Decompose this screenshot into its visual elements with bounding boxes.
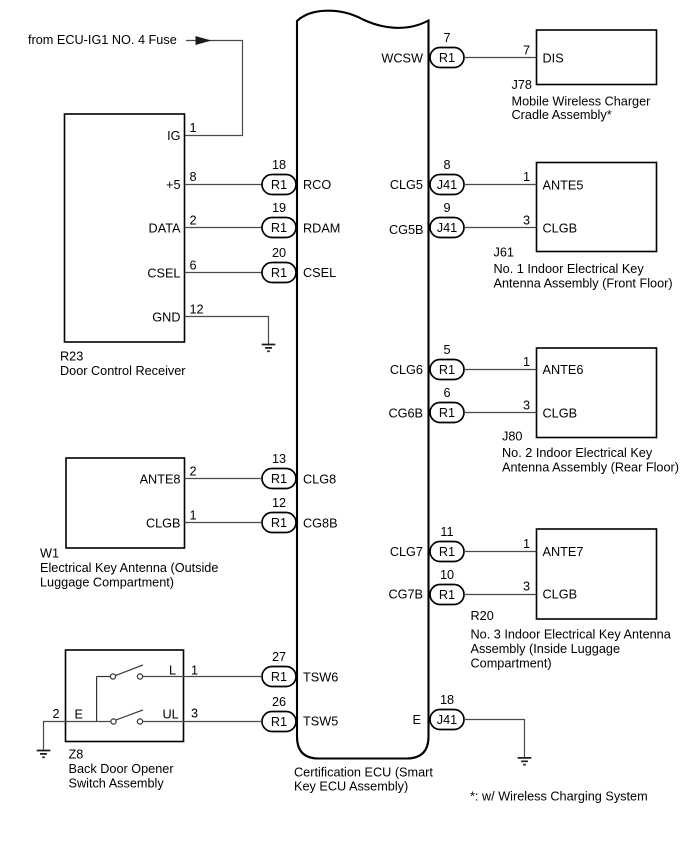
- svg-text:R1: R1: [271, 221, 287, 235]
- wire R23 +5 to R1 pin 18: [185, 184, 263, 186]
- connector oval J41 pin 18 (E): [430, 693, 464, 729]
- svg-text:Compartment): Compartment): [471, 656, 552, 670]
- svg-text:R1: R1: [271, 472, 287, 486]
- component W1 Electrical Key Antenna (Outside Luggage Compartment): [40, 458, 218, 589]
- svg-text:J41: J41: [437, 713, 457, 727]
- svg-text:10: 10: [440, 568, 454, 582]
- wire ECU E to ground: [464, 720, 525, 758]
- svg-text:CG6B: CG6B: [388, 406, 423, 420]
- svg-text:E: E: [413, 713, 421, 727]
- svg-text:CLG5: CLG5: [390, 178, 423, 192]
- svg-text:5: 5: [443, 343, 450, 357]
- connector oval R1 pin 19 (RDAM): [262, 201, 296, 237]
- connector oval J41 pin 9 (CG5B): [430, 201, 464, 237]
- connector oval R1 pin 11 (CLG7): [430, 525, 464, 561]
- svg-text:1: 1: [523, 355, 530, 369]
- svg-text:Assembly (Inside Luggage: Assembly (Inside Luggage: [471, 642, 621, 656]
- svg-text:9: 9: [443, 201, 450, 215]
- svg-text:6: 6: [443, 386, 450, 400]
- svg-text:13: 13: [272, 452, 286, 466]
- svg-text:3: 3: [523, 213, 530, 227]
- svg-text:L: L: [169, 664, 176, 678]
- svg-text:R20: R20: [471, 609, 494, 623]
- svg-text:Antenna Assembly (Rear Floor): Antenna Assembly (Rear Floor): [502, 461, 679, 475]
- wire Z8 L to R1 pin 27: [143, 676, 262, 678]
- svg-text:ANTE6: ANTE6: [543, 363, 584, 377]
- svg-text:1: 1: [191, 663, 198, 677]
- svg-text:DATA: DATA: [149, 221, 181, 235]
- svg-text:R1: R1: [439, 406, 455, 420]
- svg-text:2: 2: [190, 213, 197, 227]
- component R23 Door Control Receiver: [60, 114, 186, 378]
- wire CG7B to CLGB (R20): [464, 594, 537, 596]
- svg-text:+5: +5: [166, 178, 180, 192]
- svg-text:CLGB: CLGB: [543, 588, 578, 602]
- svg-text:Door Control Receiver: Door Control Receiver: [60, 364, 186, 378]
- switch contacts (L): [97, 665, 143, 679]
- svg-text:CSEL: CSEL: [303, 266, 336, 280]
- svg-text:18: 18: [440, 693, 454, 707]
- svg-text:RCO: RCO: [303, 178, 331, 192]
- svg-text:CLGB: CLGB: [146, 517, 181, 531]
- wire CG5B to CLGB (J61): [464, 227, 537, 229]
- svg-text:Back Door Opener: Back Door Opener: [69, 762, 175, 776]
- svg-text:R1: R1: [271, 266, 287, 280]
- svg-text:R1: R1: [439, 545, 455, 559]
- svg-text:6: 6: [190, 258, 197, 272]
- svg-text:Certification ECU (Smart: Certification ECU (Smart: [294, 765, 433, 779]
- svg-text:R1: R1: [439, 363, 455, 377]
- ECU terminal names (right side): [381, 51, 423, 727]
- ECU terminal names (left side): [303, 178, 340, 729]
- connector oval R1 pin 13 (CLG8): [262, 452, 296, 488]
- Z8 pin numbers 1,3,2: [52, 663, 198, 721]
- svg-text:CG8B: CG8B: [303, 517, 338, 531]
- svg-text:ANTE7: ANTE7: [543, 545, 584, 559]
- svg-text:*: w/ Wireless Charging System: *: w/ Wireless Charging System: [470, 790, 648, 804]
- J61 pin numbers 1,3: [523, 170, 530, 227]
- svg-text:Z8: Z8: [69, 747, 84, 761]
- svg-text:IG: IG: [167, 129, 180, 143]
- svg-text:3: 3: [523, 580, 530, 594]
- svg-text:CG7B: CG7B: [388, 588, 423, 602]
- svg-text:Luggage Compartment): Luggage Compartment): [40, 575, 174, 589]
- svg-text:R1: R1: [271, 516, 287, 530]
- svg-text:ANTE8: ANTE8: [140, 473, 181, 487]
- connector oval R1 pin 26 (TSW5): [262, 695, 296, 731]
- wire: switch common link: [96, 677, 98, 722]
- component J61 No.1 Indoor Electrical Key Antenna Assembly (Front Floor): [494, 163, 673, 291]
- svg-text:Antenna Assembly (Front Floor): Antenna Assembly (Front Floor): [494, 277, 673, 291]
- wire CLG7 to ANTE7: [464, 551, 537, 553]
- connector oval R1 pin 18 (RCO): [262, 158, 296, 194]
- svg-text:E: E: [75, 708, 83, 722]
- connector oval R1 pin 12 (CG8B): [262, 496, 296, 532]
- svg-text:R1: R1: [271, 178, 287, 192]
- svg-text:7: 7: [523, 43, 530, 57]
- R23 pin numbers 1,8,2,6,12: [190, 121, 204, 317]
- wire: from ECU-IG1 NO.4 fuse feed with arrow down to R23 pin IG: [28, 33, 243, 136]
- J80 pin numbers 1,3: [523, 355, 530, 412]
- svg-text:J61: J61: [494, 246, 514, 260]
- svg-text:GND: GND: [152, 311, 180, 325]
- svg-text:J78: J78: [512, 78, 532, 92]
- svg-text:11: 11: [440, 525, 453, 539]
- svg-text:TSW5: TSW5: [303, 715, 338, 729]
- svg-text:CLGB: CLGB: [543, 221, 578, 235]
- wire Z8 UL to R1 pin 26: [143, 721, 262, 723]
- svg-text:R1: R1: [439, 51, 455, 65]
- svg-text:CLG6: CLG6: [390, 363, 423, 377]
- wire R23 DATA to R1 pin 19: [185, 227, 263, 229]
- svg-text:R1: R1: [439, 588, 455, 602]
- wire CLG6 to ANTE6: [464, 369, 537, 371]
- wire R23 CSEL to R1 pin 20: [185, 272, 263, 274]
- connector oval R1 pin 5 (CLG6): [430, 343, 464, 379]
- wire W1 ANTE8 to R1 pin 13: [185, 478, 263, 480]
- wire R23 GND to ground: [185, 317, 269, 344]
- svg-text:Mobile Wireless Charger: Mobile Wireless Charger: [512, 95, 652, 109]
- svg-text:No. 2 Indoor Electrical Key: No. 2 Indoor Electrical Key: [502, 446, 653, 460]
- ground (ECU E): [518, 758, 532, 765]
- svg-text:19: 19: [272, 201, 286, 215]
- svg-text:CG5B: CG5B: [389, 223, 424, 237]
- wire CLG5 to ANTE5: [464, 184, 537, 186]
- component J80 No.2 Indoor Electrical Key Antenna Assembly (Rear Floor): [502, 348, 679, 475]
- svg-text:No. 1 Indoor Electrical Key: No. 1 Indoor Electrical Key: [494, 262, 645, 276]
- svg-text:2: 2: [190, 465, 197, 479]
- svg-text:1: 1: [523, 537, 530, 551]
- W1 pin numbers 2,1: [190, 465, 197, 523]
- svg-text:26: 26: [272, 695, 286, 709]
- svg-text:R1: R1: [271, 670, 287, 684]
- svg-text:No. 3 Indoor Electrical Key An: No. 3 Indoor Electrical Key Antenna: [471, 628, 672, 642]
- svg-text:J80: J80: [502, 430, 522, 444]
- svg-text:Cradle Assembly*: Cradle Assembly*: [512, 108, 612, 122]
- svg-text:2: 2: [52, 707, 59, 721]
- connector oval R1 pin 6 (CG6B): [430, 386, 464, 422]
- svg-text:CLG8: CLG8: [303, 473, 336, 487]
- svg-text:Electrical Key Antenna (Outsid: Electrical Key Antenna (Outside: [40, 561, 218, 575]
- svg-text:CLG7: CLG7: [390, 545, 423, 559]
- wire Z8 E to ground: [44, 722, 111, 750]
- svg-text:WCSW: WCSW: [381, 51, 423, 65]
- svg-text:18: 18: [272, 158, 286, 172]
- connector oval J41 pin 8 (CLG5): [430, 158, 464, 194]
- svg-text:J41: J41: [437, 178, 457, 192]
- connector oval R1 pin 20 (CSEL): [262, 246, 296, 282]
- svg-text:CSEL: CSEL: [147, 266, 180, 280]
- wire WCSW to DIS: [464, 57, 537, 59]
- R20 pin numbers 1,3: [523, 537, 530, 594]
- svg-text:1: 1: [190, 509, 197, 523]
- svg-text:Key ECU Assembly): Key ECU Assembly): [294, 780, 408, 794]
- svg-text:from ECU-IG1 NO. 4 Fuse: from ECU-IG1 NO. 4 Fuse: [28, 33, 177, 47]
- connector oval R1 pin 27 (TSW6): [262, 650, 296, 686]
- svg-text:W1: W1: [40, 546, 59, 560]
- svg-text:1: 1: [523, 170, 530, 184]
- component J78 Mobile Wireless Charger Cradle Assembly (DIS): [512, 30, 657, 122]
- component R20 No.3 Indoor Electrical Key Antenna Assembly (Inside Luggage Compartment): [471, 529, 672, 670]
- svg-text:J41: J41: [437, 221, 457, 235]
- svg-text:R23: R23: [60, 350, 83, 364]
- ground (R23 GND): [262, 345, 276, 352]
- wire W1 CLGB to R1 pin 12: [185, 522, 263, 524]
- svg-text:8: 8: [443, 158, 450, 172]
- ground (Z8 E): [37, 751, 51, 758]
- svg-text:ANTE5: ANTE5: [543, 178, 584, 192]
- svg-text:CLGB: CLGB: [543, 406, 578, 420]
- ECU body: Certification ECU (Smart Key ECU Assembly): [294, 11, 433, 794]
- svg-text:DIS: DIS: [543, 51, 564, 65]
- component Z8 Back Door Opener Switch Assembly: [66, 650, 184, 790]
- svg-text:1: 1: [190, 121, 197, 135]
- connector oval R1 pin 7 (WCSW): [430, 31, 464, 67]
- svg-text:Switch Assembly: Switch Assembly: [69, 776, 165, 790]
- svg-text:27: 27: [272, 650, 286, 664]
- svg-text:12: 12: [272, 496, 286, 510]
- svg-text:12: 12: [190, 303, 204, 317]
- svg-text:3: 3: [523, 398, 530, 412]
- svg-text:RDAM: RDAM: [303, 221, 340, 235]
- svg-text:R1: R1: [271, 715, 287, 729]
- svg-text:3: 3: [191, 707, 198, 721]
- svg-text:20: 20: [272, 246, 286, 260]
- svg-text:8: 8: [190, 170, 197, 184]
- svg-text:UL: UL: [163, 708, 179, 722]
- svg-text:7: 7: [443, 31, 450, 45]
- connector oval R1 pin 10 (CG7B): [430, 568, 464, 604]
- wire CG6B to CLGB (J80): [464, 412, 537, 414]
- svg-text:TSW6: TSW6: [303, 670, 338, 684]
- switch contacts (UL): [111, 710, 143, 724]
